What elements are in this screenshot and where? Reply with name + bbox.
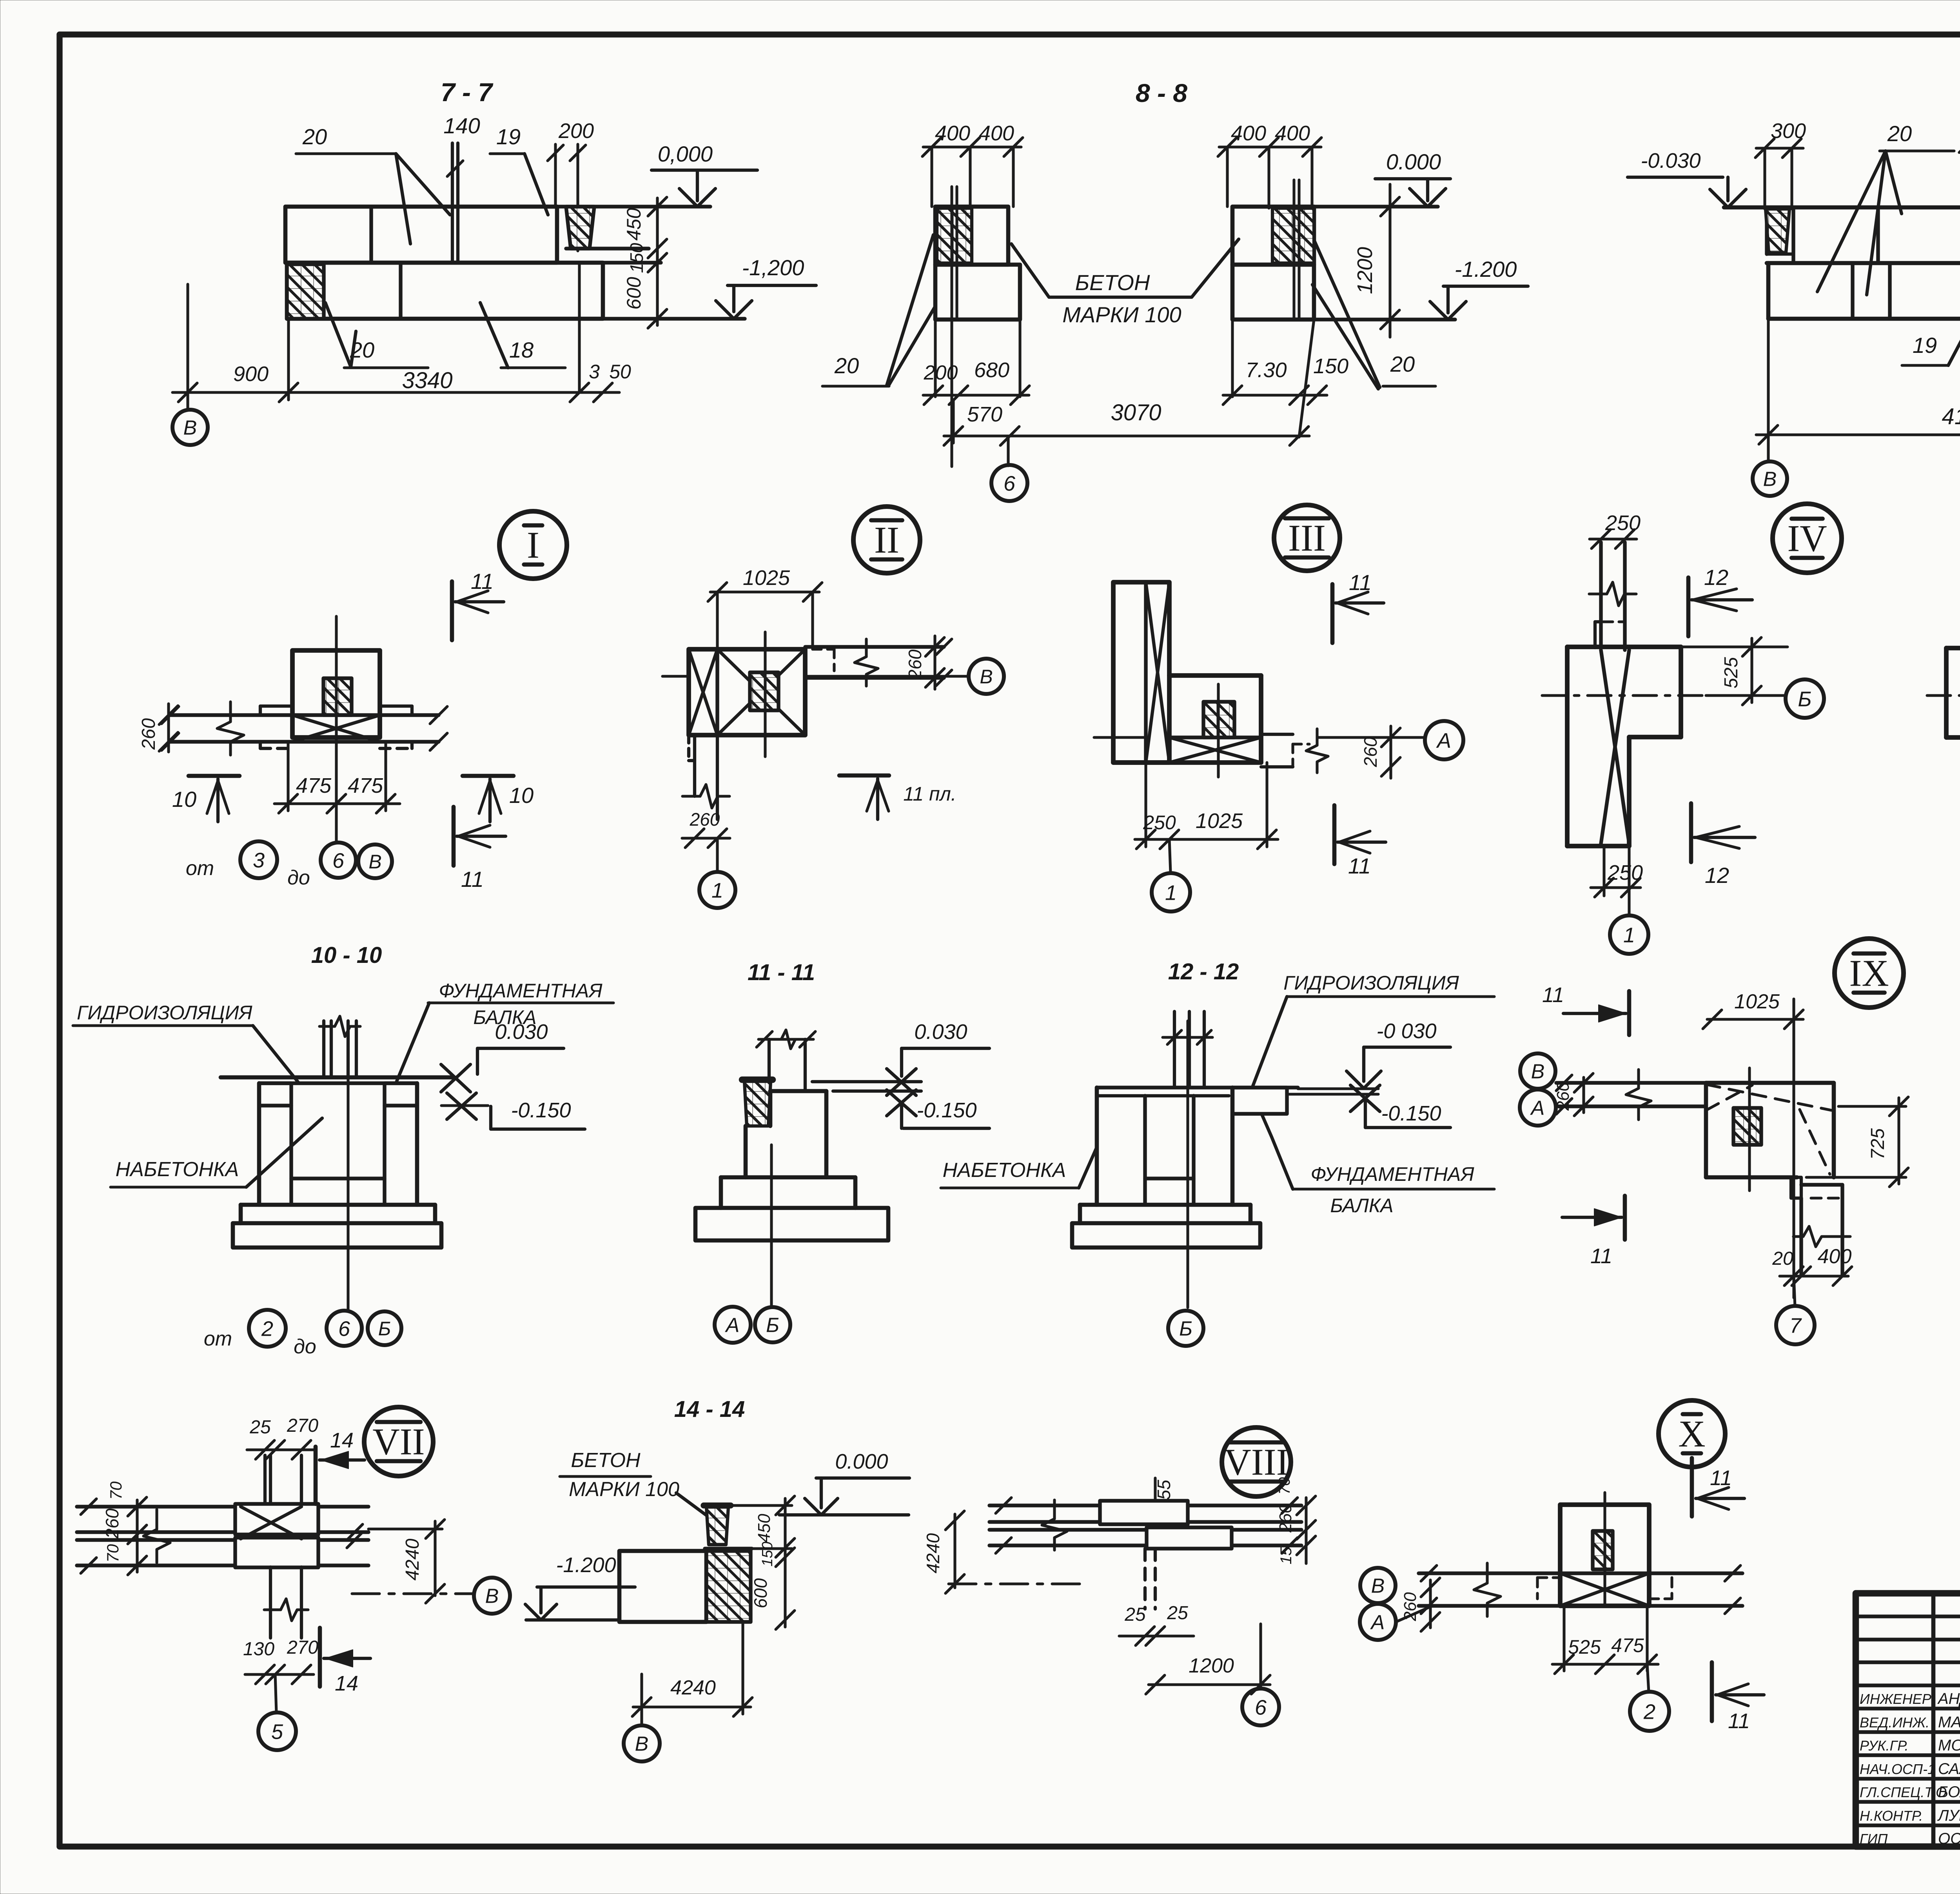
detail VII wall bands — [77, 1499, 368, 1573]
svg-text:11 - 11: 11 - 11 — [748, 960, 815, 985]
section 8-8 title — [1136, 78, 1187, 107]
section 11-11 top dim with break — [757, 1030, 815, 1049]
svg-text:НАБЕТОНКА: НАБЕТОНКА — [943, 1159, 1066, 1182]
svg-text:Б: Б — [1798, 687, 1811, 711]
section 14-14 label beton marki 100 — [560, 1449, 726, 1530]
detail II main square — [689, 649, 805, 735]
svg-text:VIII: VIII — [1224, 1441, 1289, 1483]
section 7-7 level -1.200 — [603, 255, 816, 319]
section 8-8 right rebar — [1294, 180, 1299, 320]
svg-text:БЕТОН: БЕТОН — [571, 1449, 641, 1472]
detail I section mark 10 left — [172, 776, 240, 822]
svg-text:АНДРЕЕВА: АНДРЕЕВА — [1937, 1690, 1960, 1707]
svg-text:260: 260 — [1276, 1504, 1295, 1533]
svg-text:400: 400 — [935, 122, 970, 145]
section 8-8 dim 3070 — [1010, 400, 1309, 445]
svg-text:140: 140 — [443, 113, 480, 138]
detail III L-plan horizontal part — [1113, 676, 1261, 763]
svg-text:ФУНДАМЕНТНАЯ: ФУНДАМЕНТНАЯ — [439, 980, 603, 1002]
svg-text:МОРГУНОВ: МОРГУНОВ — [1938, 1737, 1960, 1754]
svg-text:900: 900 — [233, 362, 269, 386]
svg-text:18: 18 — [509, 338, 534, 362]
section 9-9 dim 95 — [1959, 114, 1960, 207]
svg-text:55: 55 — [1154, 1480, 1174, 1500]
section 9-9 axis line B — [1767, 319, 1769, 462]
svg-text:525: 525 — [1568, 1636, 1601, 1658]
svg-text:РУК.ГР.: РУК.ГР. — [1860, 1738, 1909, 1754]
svg-text:70: 70 — [107, 1481, 125, 1500]
section 10-10 label fundamentnaya balka — [397, 980, 613, 1081]
svg-text:3: 3 — [589, 361, 600, 383]
svg-text:14 - 14: 14 - 14 — [674, 1396, 745, 1422]
detail VIII dims 70 260 15 right — [1276, 1477, 1316, 1565]
svg-text:ЛУЦЕНКО: ЛУЦЕНКО — [1937, 1807, 1960, 1824]
svg-text:12: 12 — [1705, 863, 1729, 888]
svg-text:19: 19 — [496, 124, 521, 149]
svg-text:19: 19 — [1913, 333, 1937, 358]
detail VII section mark 14 bottom — [320, 1628, 370, 1695]
section 12-12 base slab — [1072, 1223, 1260, 1248]
section 14-14 right rotated dims — [731, 1496, 795, 1629]
section 10-10 level -0.150 — [441, 1093, 585, 1129]
detail I dim 475 475 — [274, 742, 400, 813]
detail II circle — [853, 507, 920, 573]
detail III column hatch — [1203, 684, 1234, 777]
section 14-14 foundation block — [619, 1551, 706, 1622]
svg-text:2: 2 — [261, 1317, 273, 1340]
detail X dim 260 — [1401, 1578, 1440, 1631]
svg-text:260: 260 — [690, 809, 720, 830]
svg-text:12 - 12: 12 - 12 — [1168, 959, 1239, 984]
section 9-9 dim 300 — [1755, 119, 1806, 209]
svg-text:1025: 1025 — [743, 566, 790, 590]
detail VII dim 4240 — [368, 1520, 445, 1603]
detail IV column above — [1589, 542, 1636, 650]
detail IV x-cross — [1601, 650, 1629, 844]
detail VII column above — [265, 1455, 301, 1507]
svg-text:25: 25 — [249, 1417, 271, 1438]
svg-text:450: 450 — [623, 208, 645, 241]
svg-text:1025: 1025 — [1734, 990, 1780, 1013]
svg-text:400: 400 — [1231, 122, 1266, 145]
detail IV axis horizontal — [1542, 694, 1706, 697]
svg-text:1: 1 — [1623, 923, 1635, 947]
section 11-11 hatched trapezoid — [742, 1080, 773, 1126]
detail VIII dim 55 — [1154, 1478, 1174, 1501]
detail III section mark 11 top — [1332, 570, 1384, 643]
svg-text:НАЧ.ОСП-1: НАЧ.ОСП-1 — [1860, 1761, 1935, 1777]
section 8-8 dim 570 — [944, 400, 1019, 445]
detail X section mark 11 bottom — [1712, 1662, 1764, 1733]
svg-text:20: 20 — [834, 353, 859, 378]
section 8-8 dims 200 680 — [923, 358, 1029, 405]
section 12-12 level -0.150 — [1350, 1085, 1450, 1128]
section 8-8 right top dim 400 400 — [1218, 122, 1321, 208]
svg-text:260: 260 — [1401, 1592, 1420, 1622]
detail III dim 260 right — [1360, 726, 1400, 778]
svg-text:525: 525 — [1721, 657, 1742, 688]
svg-text:ГИДРОИЗОЛЯЦИЯ: ГИДРОИЗОЛЯЦИЯ — [1283, 972, 1459, 994]
svg-text:260: 260 — [1553, 1082, 1573, 1111]
svg-text:А: А — [725, 1314, 740, 1337]
detail II column below — [682, 735, 730, 819]
section 11-11 column above — [769, 1039, 805, 1091]
svg-text:475: 475 — [1611, 1634, 1644, 1656]
svg-text:20: 20 — [302, 124, 327, 149]
detail VII dim 130 270 bottom — [243, 1637, 318, 1684]
svg-text:6: 6 — [332, 849, 345, 872]
section 7-7 title — [441, 78, 494, 107]
svg-text:12: 12 — [1704, 565, 1728, 590]
section 7-7 lower slab — [287, 263, 603, 392]
section 7-7 label 20 bottom — [325, 303, 428, 368]
section 12-12 label gidroizolyaciya — [1253, 972, 1494, 1086]
detail X beam band — [1419, 1563, 1742, 1616]
svg-text:200: 200 — [924, 361, 958, 384]
detail VIII dim 25 25 — [1119, 1603, 1194, 1645]
svg-text:БАЛКА: БАЛКА — [1330, 1195, 1393, 1217]
section 8-8 level 0.000 — [1314, 149, 1450, 207]
section 8-8 label beton marki 100 — [1011, 239, 1239, 327]
svg-text:I: I — [527, 524, 539, 566]
detail X dim 525 475 — [1552, 1607, 1658, 1674]
section 12-12 foundation body — [1080, 1088, 1250, 1223]
detail VIII dim 4240 left — [923, 1511, 1086, 1593]
detail IX dim 260 — [1553, 1073, 1593, 1116]
svg-text:В: В — [1371, 1575, 1385, 1598]
section 8-8 dims 730 150 right — [1223, 354, 1348, 405]
detail VII dim 25 270 top — [247, 1415, 318, 1459]
svg-text:5: 5 — [271, 1720, 283, 1743]
detail III dims 250 1025 — [1135, 763, 1278, 849]
detail IV dim 525 — [1706, 637, 1786, 705]
svg-text:11: 11 — [1349, 570, 1372, 595]
svg-text:200: 200 — [558, 119, 594, 143]
svg-text:11: 11 — [471, 569, 494, 594]
svg-text:475: 475 — [348, 774, 383, 797]
section 14-14 level -1.200 — [525, 1553, 635, 1620]
section 14-14 title — [674, 1396, 745, 1422]
section 12-12 title — [1168, 959, 1239, 984]
svg-text:250: 250 — [1605, 511, 1641, 535]
detail III axis circle A — [1425, 721, 1463, 759]
detail X axis circles B A — [1360, 1568, 1429, 1640]
section 12-12 label nabetonka — [941, 1147, 1097, 1188]
svg-text:IV: IV — [1787, 518, 1827, 559]
svg-text:В: В — [1763, 468, 1777, 491]
svg-text:260: 260 — [138, 718, 159, 750]
detail V main plan — [1946, 648, 1960, 745]
section 7-7 label 20 top — [296, 124, 450, 244]
svg-text:250: 250 — [1607, 861, 1643, 884]
svg-text:СААКЬЯНЦ: СААКЬЯНЦ — [1938, 1760, 1960, 1778]
detail II dim 260 below — [682, 809, 730, 848]
section 7-7 bottom dim 900-3340-350 — [172, 319, 631, 402]
detail III section mark 11 bottom — [1334, 805, 1386, 878]
detail IV dim 250 top — [1590, 511, 1641, 548]
detail IX column hatch — [1733, 1068, 1761, 1191]
svg-text:IX: IX — [1849, 952, 1889, 994]
detail VIII break in wall — [1042, 1500, 1067, 1550]
svg-text:11: 11 — [1542, 983, 1564, 1007]
section 7-7 right dim 450-150 — [623, 197, 667, 273]
detail VIII dim 1200 — [1146, 1624, 1270, 1694]
detail X main square — [1560, 1505, 1649, 1606]
svg-text:6: 6 — [1255, 1696, 1267, 1719]
svg-text:-1.200: -1.200 — [1455, 257, 1517, 281]
svg-text:БОЯРЧЕНКО: БОЯРЧЕНКО — [1938, 1783, 1960, 1801]
detail III beam stubs right — [1261, 729, 1328, 773]
section 14-14 level 0.000 — [779, 1450, 909, 1515]
svg-text:11: 11 — [1590, 1244, 1612, 1268]
svg-text:11: 11 — [1710, 1466, 1732, 1490]
detail IV circle — [1773, 504, 1842, 573]
detail IV main plan — [1567, 647, 1788, 846]
detail X axis circle 2 — [1630, 1664, 1669, 1731]
section 8-8 dim 1200 — [1353, 184, 1399, 337]
section 7-7 hatch block lower left — [287, 264, 324, 319]
section 7-7 axis line B — [186, 284, 189, 410]
detail IX notch and lower wing — [1791, 1177, 1850, 1275]
svg-text:ГИДРОИЗОЛЯЦИЯ: ГИДРОИЗОЛЯЦИЯ — [77, 1002, 252, 1024]
svg-text:0,000: 0,000 — [658, 142, 713, 166]
detail VII circle — [364, 1407, 433, 1476]
detail VII column below — [264, 1567, 308, 1638]
svg-text:7 - 7: 7 - 7 — [441, 78, 494, 107]
section 9-9 lower band — [1768, 251, 1960, 319]
svg-text:25: 25 — [1124, 1604, 1146, 1625]
section 7-7 dim 200 — [548, 119, 594, 251]
svg-text:20: 20 — [1772, 1248, 1793, 1269]
detail IV notch left — [1595, 622, 1601, 648]
detail III axis horizontal — [1094, 736, 1423, 739]
svg-text:А: А — [1370, 1611, 1385, 1634]
detail VII flange plates — [235, 1504, 318, 1567]
detail VII x-cross — [241, 1507, 301, 1539]
svg-text:В: В — [183, 417, 197, 439]
section 14-14 hatched below-floor part — [705, 1549, 752, 1622]
detail III L-plan tall part — [1113, 582, 1169, 763]
svg-text:ОСТАШЕВСКИЙ: ОСТАШЕВСКИЙ — [1938, 1829, 1960, 1847]
svg-text:270: 270 — [287, 1415, 318, 1436]
svg-text:3: 3 — [253, 848, 265, 872]
svg-text:-1,200: -1,200 — [742, 255, 804, 280]
svg-text:3070: 3070 — [1111, 400, 1161, 425]
svg-text:В: В — [368, 851, 381, 873]
svg-text:В: В — [485, 1585, 499, 1608]
detail I dim 260 left — [138, 704, 178, 752]
section 12-12 beam rect right — [1232, 1088, 1287, 1114]
section 9-9 level -0.030 — [1628, 149, 1746, 207]
detail IX beam from axes — [1556, 1070, 1706, 1120]
detail I beam x-cross — [292, 715, 380, 742]
svg-text:130: 130 — [243, 1639, 274, 1660]
detail II dim 260 right — [905, 636, 944, 689]
detail IX axis vertical — [1792, 999, 1795, 1298]
svg-text:600: 600 — [750, 1578, 771, 1608]
svg-text:400: 400 — [1818, 1245, 1852, 1268]
section 10-10 axis circles 2 6 B2 — [204, 1310, 401, 1358]
svg-text:400: 400 — [979, 122, 1014, 145]
section 9-9 top slab — [1724, 207, 1960, 263]
svg-text:6: 6 — [338, 1317, 350, 1340]
section 10-10 label gidroizolyaciya — [73, 1002, 299, 1083]
detail IX axis circles B A — [1520, 1053, 1556, 1126]
section 10-10 base slab — [233, 1223, 441, 1248]
detail IX circle — [1835, 939, 1904, 1008]
section 12-12 level -0.030 — [1347, 1019, 1450, 1088]
svg-text:III: III — [1288, 517, 1326, 559]
svg-text:МАКАРОВА: МАКАРОВА — [1938, 1714, 1960, 1731]
svg-text:4240: 4240 — [923, 1533, 943, 1573]
svg-text:от: от — [204, 1327, 232, 1350]
svg-text:11 пл.: 11 пл. — [903, 783, 956, 805]
detail VIII axis circle 6 — [1242, 1689, 1279, 1725]
detail IX axis circle 7 — [1776, 1276, 1815, 1344]
detail I circle — [499, 511, 567, 579]
detail VII section mark 14 top — [316, 1429, 365, 1504]
detail VIII wall bands — [989, 1498, 1301, 1553]
section 7-7 label 18 — [480, 303, 565, 368]
title block staff labels — [1860, 1690, 1960, 1847]
svg-text:20: 20 — [1390, 352, 1415, 376]
detail IV axis circle B2 — [1786, 679, 1824, 718]
detail VII dims 70 260 70 left — [102, 1481, 147, 1575]
section 11-11 title — [748, 960, 815, 985]
detail I section mark 10 right — [463, 776, 534, 822]
svg-text:20: 20 — [1887, 121, 1912, 146]
svg-text:-0.150: -0.150 — [1381, 1102, 1441, 1125]
svg-text:570: 570 — [967, 403, 1002, 426]
svg-text:Б: Б — [766, 1314, 779, 1337]
detail II axis to circle B — [662, 659, 1004, 694]
svg-text:X: X — [1678, 1413, 1705, 1455]
svg-text:1025: 1025 — [1196, 809, 1243, 833]
detail IX main block — [1706, 1083, 1834, 1177]
svg-text:МАРКИ 100: МАРКИ 100 — [1062, 302, 1181, 327]
section 9-9 axis circle B — [1753, 461, 1787, 496]
detail II x-crosses — [689, 649, 805, 735]
svg-text:8 - 8: 8 - 8 — [1136, 78, 1187, 107]
svg-text:ФУНДАМЕНТНАЯ: ФУНДАМЕНТНАЯ — [1310, 1163, 1474, 1185]
section 11-11 foundation profile — [721, 1091, 855, 1208]
section 8-8 level -1.200 — [1314, 257, 1528, 320]
svg-text:475: 475 — [296, 774, 332, 797]
svg-text:ГЛ.СПЕЦ.Т.О: ГЛ.СПЕЦ.Т.О — [1860, 1784, 1947, 1800]
detail IV section mark 12 top — [1688, 565, 1752, 636]
svg-text:150: 150 — [1313, 354, 1348, 378]
svg-text:70: 70 — [1276, 1477, 1293, 1495]
detail X section mark 11 top — [1692, 1458, 1744, 1516]
section 8-8 left top dim 400 400 — [922, 122, 1023, 208]
svg-text:3340: 3340 — [402, 368, 452, 393]
svg-text:150: 150 — [759, 1542, 776, 1566]
svg-text:0.000: 0.000 — [1386, 149, 1441, 174]
section 7-7 upper slab — [285, 207, 557, 263]
section 10-10 foundation body — [241, 1083, 435, 1223]
section 12-12 axis — [1186, 1021, 1189, 1307]
detail VII break in wall — [143, 1509, 170, 1563]
svg-text:300: 300 — [1771, 119, 1806, 143]
svg-text:Н.КОНТР.: Н.КОНТР. — [1860, 1808, 1923, 1824]
detail I section mark 11 top — [452, 569, 504, 640]
section 10-10 label nabetonka — [111, 1118, 322, 1187]
section 9-9 label 19 — [1902, 310, 1960, 365]
svg-text:В: В — [635, 1733, 649, 1756]
section 8-8 left rebar — [952, 187, 957, 467]
svg-text:250: 250 — [1143, 812, 1176, 834]
detail X circle — [1659, 1400, 1725, 1467]
svg-text:1: 1 — [711, 879, 723, 902]
svg-text:260: 260 — [1360, 737, 1381, 767]
svg-text:6: 6 — [1004, 472, 1016, 495]
section 8-8 left pier top — [935, 207, 1008, 265]
detail X x-cross — [1560, 1573, 1649, 1606]
svg-text:А: А — [1530, 1097, 1545, 1120]
detail I axis circles 3 6 B — [186, 841, 392, 889]
detail IV dim 250 bottom — [1591, 846, 1643, 897]
svg-text:11: 11 — [1348, 853, 1371, 878]
detail IX dim 1025 — [1703, 990, 1803, 1029]
svg-text:БЕТОН: БЕТОН — [1075, 270, 1150, 295]
svg-text:Б: Б — [1179, 1318, 1192, 1340]
section 7-7 rebar pair — [452, 143, 458, 262]
section 9-9 dim 4185 — [1756, 321, 1960, 444]
detail I beam band — [162, 706, 447, 750]
section 14-14 axis circle B — [624, 1725, 660, 1761]
detail I column square — [292, 650, 380, 737]
svg-text:от: от — [186, 857, 214, 880]
detail V axis horizontal — [1927, 694, 1960, 697]
detail VIII flange plates — [1100, 1501, 1232, 1549]
detail I break symbol — [217, 702, 244, 755]
section 11-11 level 0.030 — [812, 1020, 989, 1095]
detail IX dim 20 400 — [1772, 1245, 1852, 1286]
section 11-11 base slab — [695, 1208, 888, 1240]
detail X dashed notches — [1537, 1578, 1672, 1599]
section 10-10 title — [311, 942, 382, 968]
section 11-11 axis — [770, 1145, 773, 1306]
svg-text:Б: Б — [378, 1318, 391, 1340]
detail IX dim 725 — [1806, 1097, 1908, 1187]
svg-text:10: 10 — [509, 783, 534, 808]
detail II column hatch — [750, 632, 779, 757]
svg-text:400: 400 — [1275, 122, 1310, 145]
title block outer box — [1856, 1593, 1960, 1847]
svg-text:70: 70 — [103, 1544, 122, 1562]
detail II beam right — [805, 639, 952, 686]
svg-text:В: В — [980, 666, 993, 688]
detail III axis circle 1 — [1152, 839, 1190, 912]
svg-text:15: 15 — [1278, 1547, 1295, 1564]
title block left table grid — [1856, 1593, 1960, 1847]
detail VII axis to circle B — [352, 1578, 510, 1614]
section 10-10 column above — [319, 1016, 360, 1077]
section 12-12 label fundamentnaya balka — [1262, 1115, 1494, 1217]
svg-text:до: до — [294, 1335, 316, 1358]
detail VIII circle — [1222, 1427, 1291, 1496]
detail I column hatch — [323, 678, 352, 715]
section 10-10 floor line — [221, 1075, 454, 1080]
svg-text:НАБЕТОНКА: НАБЕТОНКА — [116, 1158, 239, 1181]
section 8-8 right pier bottom — [1232, 265, 1314, 437]
svg-text:ГИП: ГИП — [1860, 1831, 1888, 1847]
svg-text:ИНЖЕНЕР: ИНЖЕНЕР — [1860, 1691, 1931, 1707]
detail IX section mark 11 top — [1542, 983, 1629, 1035]
svg-text:II: II — [874, 519, 899, 561]
detail II dim 1025 — [708, 566, 822, 649]
section 7-7 dim 600 — [623, 267, 667, 328]
